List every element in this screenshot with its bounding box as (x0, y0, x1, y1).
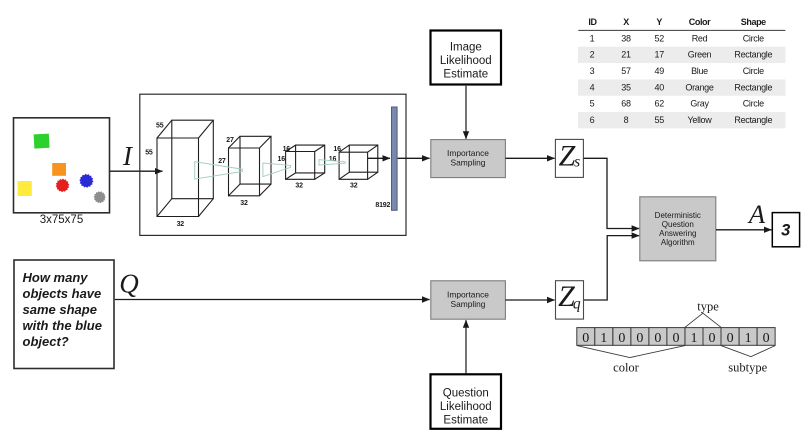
svg-text:0: 0 (582, 331, 589, 346)
deterministic question answering algorithm box (640, 197, 716, 261)
answer box (772, 213, 799, 247)
conv cuboid 4 (339, 152, 368, 179)
svg-text:35: 35 (621, 82, 631, 92)
svg-text:s: s (574, 154, 580, 171)
question likelihood estimate box (431, 374, 502, 429)
svg-text:Sampling: Sampling (451, 158, 486, 168)
svg-text:16: 16 (333, 146, 341, 153)
svg-text:40: 40 (654, 82, 664, 92)
svg-text:color: color (613, 361, 640, 375)
table row band 6 (578, 112, 786, 128)
svg-text:Sampling: Sampling (451, 299, 486, 309)
svg-text:Q: Q (119, 269, 139, 299)
svg-text:32: 32 (295, 183, 303, 190)
svg-text:Importance: Importance (447, 148, 489, 158)
svg-text:Estimate: Estimate (443, 414, 488, 426)
svg-text:38: 38 (621, 33, 631, 43)
conv cuboid 3 (286, 152, 315, 180)
svg-text:Circle: Circle (743, 99, 764, 109)
svg-text:subtype: subtype (728, 361, 767, 375)
svg-text:How many: How many (23, 270, 89, 285)
svg-text:Image: Image (450, 42, 482, 54)
importance sampling box 2 (431, 281, 506, 319)
image likelihood estimate box (431, 31, 502, 85)
svg-text:Red: Red (692, 33, 708, 43)
svg-text:Likelihood: Likelihood (440, 401, 492, 413)
projection cone 1 (195, 162, 243, 180)
svg-text:27: 27 (226, 137, 234, 144)
svg-text:Question: Question (443, 387, 489, 399)
image input box (14, 118, 110, 213)
wire Q arrow (115, 299, 430, 301)
svg-text:55: 55 (654, 115, 664, 125)
svg-text:0: 0 (763, 331, 770, 346)
svg-text:Deterministic: Deterministic (655, 211, 701, 220)
svg-text:Yellow: Yellow (688, 115, 713, 125)
svg-text:1: 1 (590, 33, 595, 43)
svg-text:2: 2 (590, 50, 595, 60)
svg-text:27: 27 (218, 158, 226, 165)
svg-text:8: 8 (624, 115, 629, 125)
svg-text:Orange: Orange (685, 82, 714, 92)
wire bar to importance sampling 1 (398, 157, 430, 159)
question box (14, 260, 114, 369)
svg-text:Estimate: Estimate (443, 69, 488, 81)
svg-text:0: 0 (654, 331, 661, 346)
svg-text:3x75x75: 3x75x75 (40, 214, 83, 226)
svg-text:Likelihood: Likelihood (440, 55, 492, 67)
svg-text:49: 49 (654, 66, 664, 76)
svg-text:5: 5 (590, 99, 595, 109)
wire Zq to DQA (584, 236, 640, 300)
wire IS1 to Zs (505, 157, 554, 159)
svg-text:55: 55 (145, 149, 153, 156)
svg-text:1: 1 (600, 331, 607, 346)
svg-text:16: 16 (329, 156, 337, 163)
subtype brace (721, 346, 775, 357)
binary encoding vector cells (577, 328, 595, 346)
svg-text:1: 1 (745, 331, 752, 346)
svg-text:62: 62 (654, 99, 664, 109)
svg-text:0: 0 (636, 331, 643, 346)
svg-text:16: 16 (278, 156, 286, 163)
svg-text:0: 0 (673, 331, 680, 346)
svg-text:1: 1 (691, 331, 698, 346)
svg-text:Shape: Shape (741, 17, 766, 27)
svg-text:16: 16 (283, 146, 291, 153)
svg-text:8192: 8192 (375, 202, 390, 209)
svg-text:Z: Z (559, 139, 576, 172)
svg-text:32: 32 (240, 200, 248, 207)
wire I arrow (110, 170, 163, 172)
Zs box (555, 139, 583, 177)
svg-text:68: 68 (621, 99, 631, 109)
wire ILE down to importance sampling 1 (465, 86, 467, 139)
svg-text:type: type (697, 300, 719, 314)
conv cuboid 1 (157, 138, 199, 217)
svg-text:57: 57 (621, 66, 631, 76)
wire Zs to DQA (584, 158, 640, 228)
gray circle object (94, 191, 106, 203)
svg-text:X: X (623, 17, 629, 27)
svg-text:0: 0 (709, 331, 716, 346)
Zq box (556, 281, 584, 319)
wire cuboid4 to bar (368, 157, 390, 159)
svg-text:with the blue: with the blue (23, 318, 102, 333)
svg-text:55: 55 (156, 123, 164, 130)
svg-text:32: 32 (177, 221, 185, 228)
svg-text:Question: Question (662, 220, 694, 229)
projection cone 3 (319, 160, 345, 166)
svg-text:17: 17 (654, 50, 664, 60)
wire IS2 to Zq (505, 299, 554, 301)
blue circle object (79, 174, 93, 188)
svg-text:Rectangle: Rectangle (734, 115, 772, 125)
svg-text:Answering: Answering (659, 229, 696, 238)
green square object (34, 134, 50, 149)
svg-text:q: q (573, 296, 581, 313)
conv cuboid 2 (229, 148, 260, 196)
orange square object (52, 163, 66, 176)
svg-text:3: 3 (590, 66, 595, 76)
importance sampling box 1 (431, 140, 506, 178)
wire QLE up to importance sampling 2 (465, 320, 467, 373)
svg-text:32: 32 (350, 183, 358, 190)
svg-text:Rectangle: Rectangle (734, 50, 772, 60)
feature vector bar (392, 107, 398, 210)
projection cone 2 (263, 163, 291, 177)
svg-text:Circle: Circle (743, 33, 764, 43)
table row band 2 (578, 47, 786, 63)
svg-text:4: 4 (590, 82, 595, 92)
svg-text:Green: Green (688, 50, 712, 60)
svg-text:Circle: Circle (743, 66, 764, 76)
svg-text:0: 0 (727, 331, 734, 346)
svg-text:Gray: Gray (690, 99, 709, 109)
svg-text:Rectangle: Rectangle (734, 82, 772, 92)
color brace (577, 346, 685, 358)
type brace (685, 313, 721, 327)
svg-text:Y: Y (656, 17, 662, 27)
yellow square object (18, 181, 32, 196)
svg-text:Blue: Blue (691, 66, 708, 76)
red circle object (56, 179, 70, 193)
svg-text:Algorithm: Algorithm (661, 238, 695, 247)
svg-text:ID: ID (588, 17, 597, 27)
table row band 4 (578, 79, 786, 95)
svg-text:objects have: objects have (23, 286, 102, 301)
svg-text:object?: object? (23, 334, 69, 349)
CNN outer box (140, 94, 406, 235)
svg-text:52: 52 (654, 33, 664, 43)
svg-text:21: 21 (621, 50, 631, 60)
wire DQA to answer (716, 229, 771, 231)
svg-text:A: A (747, 199, 766, 229)
svg-text:Importance: Importance (447, 289, 489, 299)
svg-text:3: 3 (781, 222, 790, 240)
svg-text:same shape: same shape (23, 302, 97, 317)
svg-text:6: 6 (590, 115, 595, 125)
svg-text:Color: Color (689, 17, 711, 27)
table header rule (578, 29, 785, 31)
svg-text:0: 0 (618, 331, 625, 346)
